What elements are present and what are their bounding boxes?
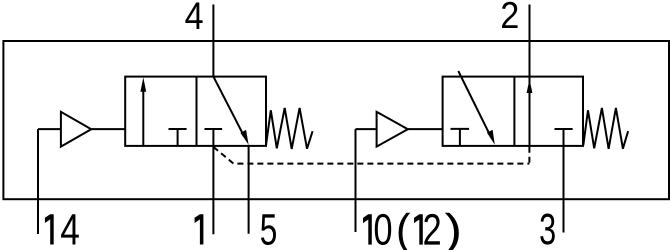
wire port14 riser: [37, 129, 39, 234]
label 5: [261, 214, 276, 245]
wire 14 to triangle: [38, 128, 61, 130]
valve V2 return spring: [583, 108, 628, 149]
valve V2 body: [443, 77, 583, 146]
valve V1 pilot amplifier triangle: [61, 112, 91, 147]
wire 10 to triangle: [356, 128, 377, 130]
valve V2 blocked port T right: [555, 129, 573, 146]
enclosure frame: [3, 41, 669, 199]
valve V2 pilot amplifier triangle: [377, 112, 408, 147]
valve V1 return spring: [266, 108, 313, 149]
valve V1 flow arrow up: [140, 77, 146, 145]
label 4: [185, 3, 202, 30]
pilot signal dashed riser: [528, 147, 530, 164]
label 3: [540, 214, 555, 245]
valve V1 box divider: [196, 77, 198, 146]
valve V1 body: [125, 77, 266, 146]
wire triangle to V1: [91, 128, 125, 130]
label 10(12): [363, 213, 459, 250]
valve V2 flow arrow up head: [527, 79, 533, 93]
port 4 line: [212, 5, 214, 77]
valve V1 blocked port T left: [169, 129, 187, 146]
port 5 line: [248, 145, 250, 234]
valve V1 diagonal flow arrow: [213, 77, 248, 145]
valve V2 blocked port T left: [451, 129, 470, 146]
wire triangle to V2: [408, 128, 443, 130]
valve V1 blocked port T right: [205, 129, 223, 146]
label 14: [45, 214, 79, 244]
label 1: [195, 214, 204, 244]
port 2 line: [529, 5, 531, 146]
valve V2 box divider: [513, 77, 515, 146]
label 2: [502, 2, 518, 28]
pilot signal dashed line: [213, 147, 529, 164]
port 3 line: [563, 146, 565, 233]
wire port10 riser: [355, 129, 357, 232]
port 1 line: [212, 146, 214, 234]
valve V2 diagonal flow arrow: [458, 71, 495, 145]
